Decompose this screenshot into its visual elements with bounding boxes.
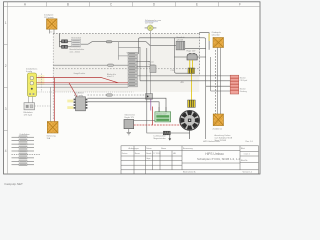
coil T1 pins xyxy=(50,29,55,33)
svg-text:12V 35W: 12V 35W xyxy=(145,23,153,25)
junction box xyxy=(146,94,153,100)
wires switches to label block xyxy=(68,41,72,47)
dashed vertical at boundary xyxy=(198,33,200,34)
inline connector oval C xyxy=(106,94,112,96)
wire rear light to right drop xyxy=(185,48,206,50)
dashed vertical near switch xyxy=(41,74,43,93)
svg-text:Datum: Datum xyxy=(122,152,128,155)
generator plug xyxy=(163,131,170,135)
svg-text:Blatt: Blatt xyxy=(241,147,245,150)
row numbers xyxy=(5,21,7,153)
dashed drop left of switch bus xyxy=(52,34,54,121)
svg-text:Batterie 12V: Batterie 12V xyxy=(157,112,168,115)
CDI wire to battery minus xyxy=(88,102,160,112)
svg-text:Änderungen: Änderungen xyxy=(129,147,139,150)
svg-text:1 2: 1 2 xyxy=(50,32,53,34)
svg-text:HiPS Umbau-Doku: HiPS Umbau-Doku xyxy=(203,141,220,143)
svg-text:Gasgriff rechts: Gasgriff rechts xyxy=(74,72,86,75)
wire strip to mount box xyxy=(137,62,151,67)
svg-text:1 von 1: 1 von 1 xyxy=(244,154,250,156)
grey switch wire xyxy=(37,84,129,86)
headlight lamp E1 xyxy=(145,25,157,31)
mid wire with oval xyxy=(53,64,128,66)
wire rectifier to battery xyxy=(134,120,155,122)
horn yellow leads xyxy=(190,60,193,68)
harness inner branch xyxy=(174,38,193,73)
mount box xyxy=(150,66,156,73)
svg-text:AC: AC xyxy=(181,81,185,84)
red vertical at battery xyxy=(152,107,154,126)
svg-text:4: 4 xyxy=(5,149,7,153)
svg-text:Blatt-Nr.: Blatt-Nr. xyxy=(241,159,248,162)
red dashed charge wire xyxy=(134,124,181,126)
left connector strip xyxy=(128,52,138,87)
svg-text:CDI: CDI xyxy=(171,70,175,72)
yellow connector xyxy=(188,68,195,74)
svg-text:2: 2 xyxy=(5,64,7,68)
column letters xyxy=(24,2,241,6)
svg-text:Regler 12V: Regler 12V xyxy=(124,116,134,119)
row ticks xyxy=(4,45,8,131)
red drop to fuse xyxy=(53,78,55,122)
svg-text:Version 1.2: Version 1.2 xyxy=(243,170,252,173)
wire colour tag at switch xyxy=(38,75,45,85)
column ticks xyxy=(47,2,219,7)
terminal legend strip xyxy=(19,136,27,166)
svg-text:Benennung: Benennung xyxy=(183,148,193,150)
svg-text:sekundär: sekundär xyxy=(212,35,221,37)
dashed drop to spark plug xyxy=(215,50,217,114)
relay dashed wire right xyxy=(35,105,51,107)
svg-text:Name: Name xyxy=(161,148,166,150)
black return wire to generator plug xyxy=(147,48,164,133)
svg-text:Datum: Datum xyxy=(146,147,152,150)
stator hatched band xyxy=(188,100,196,107)
svg-text:F: F xyxy=(239,2,241,6)
dashed harness boundary top xyxy=(53,33,199,35)
svg-text:Blattnummer A: Blattnummer A xyxy=(183,171,196,174)
red bus wire 2 xyxy=(37,82,129,84)
magneto flywheel xyxy=(180,110,200,130)
brake switch S1 xyxy=(62,40,68,43)
grey drop to fuse xyxy=(50,87,52,121)
horn left wire xyxy=(174,56,186,58)
headlamp circuit corner wires xyxy=(119,42,141,60)
frame outer border xyxy=(4,2,261,174)
svg-text:Zündung: Zündung xyxy=(240,91,247,93)
svg-text:rt/sw 1.5: rt/sw 1.5 xyxy=(107,75,114,78)
svg-text:3: 3 xyxy=(5,107,7,111)
svg-text:12V 3-pol: 12V 3-pol xyxy=(24,115,33,117)
svg-text:Fastpulp.NET: Fastpulp.NET xyxy=(5,182,24,186)
svg-text:HiPS Umbau: HiPS Umbau xyxy=(205,152,224,156)
rectifier ground xyxy=(127,129,131,135)
svg-text:Schaltplan XY001, SD1B 1-3, 1-: Schaltplan XY001, SD1B 1-3, 1-4 xyxy=(197,157,240,161)
svg-text:Hupe 12V: Hupe 12V xyxy=(187,50,197,52)
dashed boundary right vertical xyxy=(198,34,200,76)
svg-text:17.11.08: 17.11.08 xyxy=(153,153,160,155)
dashed wire CDI to junction xyxy=(88,94,146,96)
yellow wire to stator xyxy=(190,74,192,101)
main harness loop xyxy=(139,38,206,139)
wire to rear light xyxy=(81,42,176,46)
ignition coil T1 xyxy=(47,19,58,29)
yellow segment on bracket xyxy=(208,34,210,41)
frame inner margin lines xyxy=(4,2,261,174)
ignition switch (yellow) xyxy=(28,73,37,97)
red diagonal to CDI xyxy=(69,83,77,97)
wire coil T1 to brake switches xyxy=(60,34,62,47)
connector pin wire mid xyxy=(206,85,231,87)
CDI unit xyxy=(74,97,88,111)
svg-text:AC 5-polig: AC 5-polig xyxy=(74,94,83,97)
long wire upper to connector xyxy=(137,75,230,77)
title block xyxy=(121,146,259,174)
red bus wire 1 xyxy=(37,78,119,83)
flasher relay xyxy=(24,103,35,110)
svg-text:Magnetzünder: Magnetzünder xyxy=(154,137,166,140)
fuse holder (orange) xyxy=(47,122,58,134)
svg-text:Zündkerze: Zündkerze xyxy=(213,128,223,130)
horn right wire xyxy=(198,56,206,58)
brake switch S2 xyxy=(62,45,68,48)
purple wire xyxy=(150,99,152,110)
magneto stem xyxy=(170,130,190,139)
ignition coil T2 xyxy=(213,38,224,48)
battery xyxy=(155,112,171,122)
CDI connector (salmon) xyxy=(230,75,239,94)
svg-text:1: 1 xyxy=(5,21,7,25)
title block small text xyxy=(122,147,252,174)
inline connector oval B xyxy=(108,64,114,66)
coil T2 leads xyxy=(218,48,221,115)
wire colour tags at CDI xyxy=(67,100,73,103)
drop wire to connector pin xyxy=(211,57,231,91)
grey switch wire 2 xyxy=(37,86,129,88)
sheet background xyxy=(0,0,267,189)
relay leads xyxy=(29,97,33,103)
long wire lower to connector xyxy=(140,80,230,82)
svg-text:Name: Name xyxy=(135,153,140,155)
battery leads xyxy=(159,107,166,112)
dashed mid line xyxy=(53,68,199,70)
lamp feed wire xyxy=(149,31,151,95)
svg-text:CDI 6-pol: CDI 6-pol xyxy=(240,80,248,82)
strip right rail xyxy=(139,47,141,80)
svg-text:vorn + hinten: vorn + hinten xyxy=(70,50,80,53)
bracket left of coil T2 xyxy=(199,33,209,50)
svg-text:E: E xyxy=(196,2,198,6)
shaded harness region xyxy=(53,34,199,93)
CDI wire to battery plus xyxy=(88,98,167,112)
dotted wire below switch xyxy=(37,91,134,93)
horn H1 xyxy=(187,53,197,60)
rectifier box xyxy=(124,120,134,129)
svg-text:Gepr.: Gepr. xyxy=(146,157,151,160)
inline connector oval A xyxy=(106,41,112,43)
spark plug (orange) xyxy=(213,114,223,126)
svg-text:Bearb.: Bearb. xyxy=(146,152,152,155)
svg-text:Rev. 1.0: Rev. 1.0 xyxy=(246,141,254,143)
svg-text:Kabelfarben: Kabelfarben xyxy=(20,133,30,136)
ground arrow under plug xyxy=(169,135,171,139)
svg-text:B: B xyxy=(67,2,69,6)
